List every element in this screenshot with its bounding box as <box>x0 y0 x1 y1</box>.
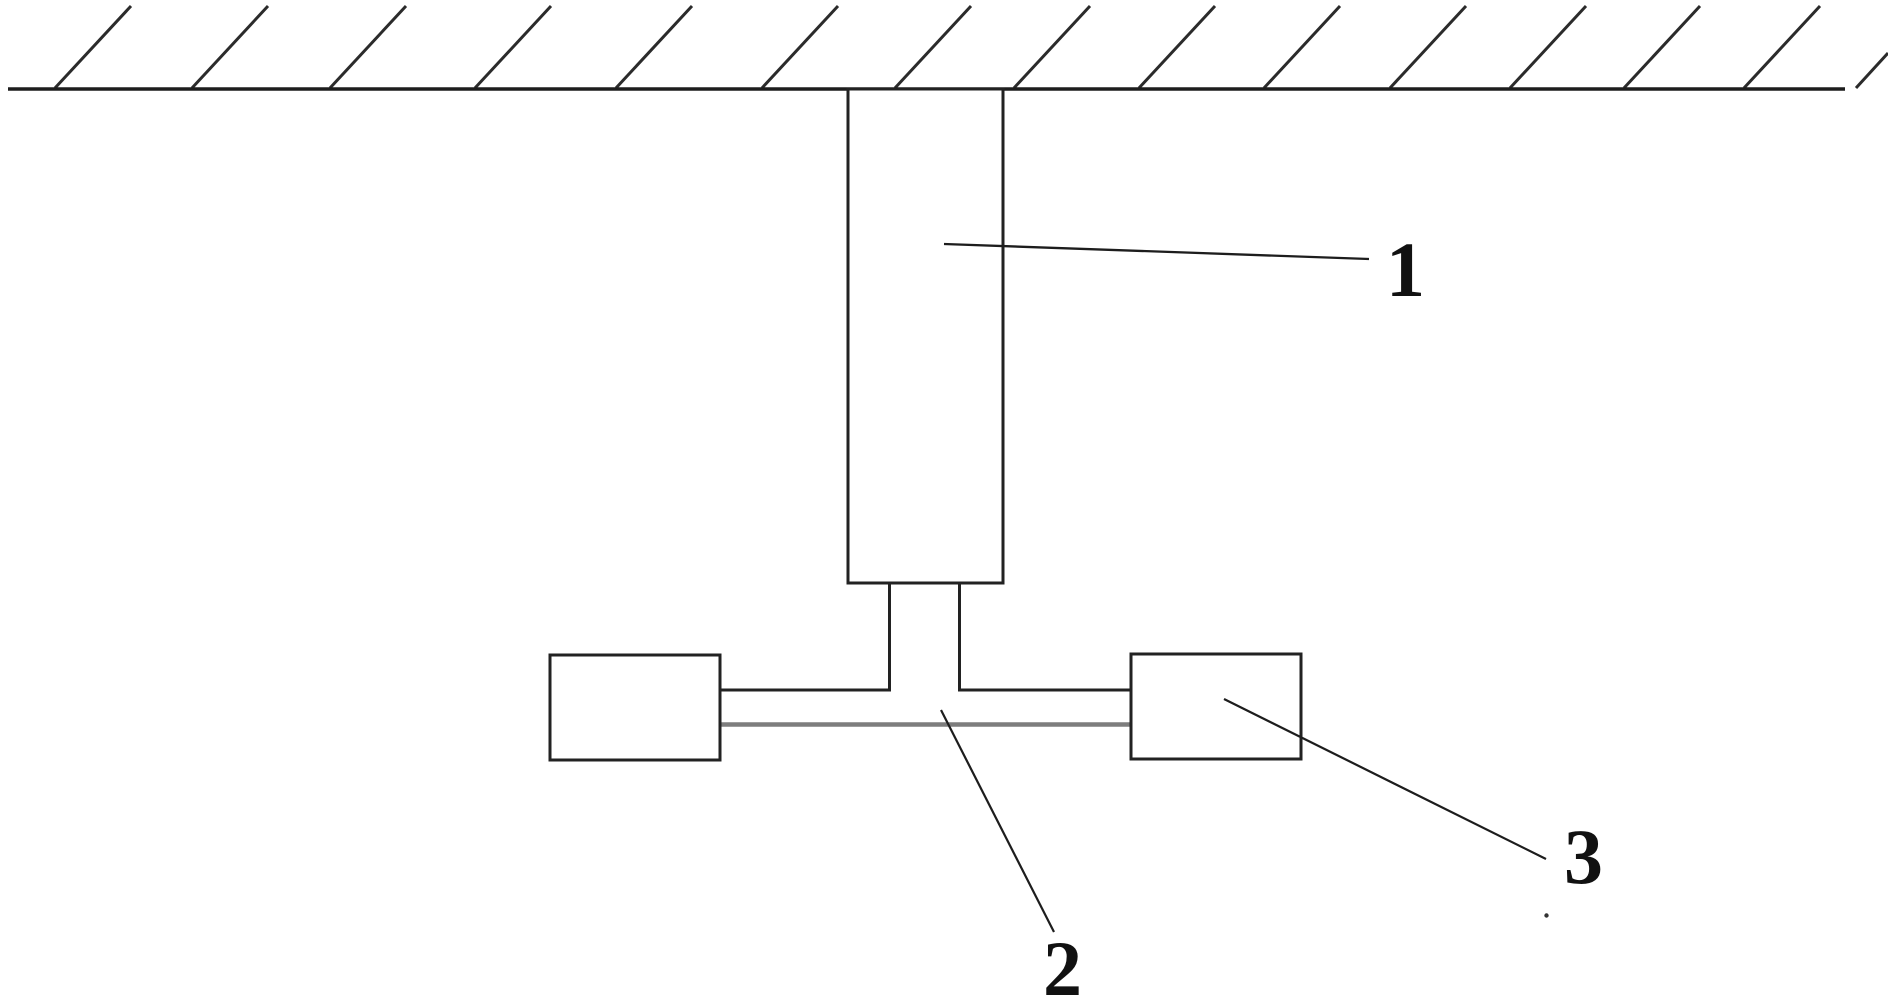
leader line 1 <box>944 244 1369 259</box>
leader line 3 <box>1224 699 1546 859</box>
svg-text:2: 2 <box>1043 925 1082 998</box>
ceiling hatching <box>55 6 1888 88</box>
stray dot <box>1544 913 1548 917</box>
left arm wire <box>719 689 891 692</box>
svg-text:3: 3 <box>1564 813 1603 900</box>
right arm wire <box>958 689 1132 692</box>
right box (item 3) <box>1131 654 1301 759</box>
left box <box>550 655 720 760</box>
leader line 2 <box>941 710 1054 932</box>
ceiling line <box>8 87 1845 91</box>
hanger column (item 1) <box>848 89 1003 583</box>
svg-text:1: 1 <box>1386 226 1425 313</box>
left stem wire <box>888 583 891 691</box>
cross bar (item 2) <box>719 722 1132 727</box>
right stem wire <box>958 583 961 691</box>
